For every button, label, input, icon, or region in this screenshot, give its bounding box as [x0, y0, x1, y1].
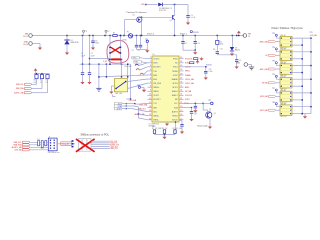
- testpoint TP5: [275, 62, 277, 64]
- wire: [141, 17, 143, 35]
- ground: [235, 65, 239, 69]
- svg-text:J5-1,2: J5-1,2: [23, 36, 28, 38]
- junction: [290, 51, 291, 52]
- wire: [146, 43, 148, 51]
- junction: [281, 86, 282, 87]
- junction: [310, 92, 311, 93]
- junction: [89, 35, 90, 36]
- wire: [36, 74, 38, 75]
- junction: [281, 113, 282, 114]
- junction: [310, 79, 311, 80]
- jumper block JP5: [280, 91, 292, 102]
- svg-text:24: 24: [180, 90, 182, 92]
- svg-text:1: 1: [150, 57, 151, 59]
- IC U1 right pin 19: [179, 111, 184, 113]
- junction: [302, 113, 303, 114]
- junction: [290, 72, 291, 73]
- ground: [193, 51, 197, 55]
- junction: [310, 51, 311, 52]
- svg-text:VOUT_0: VOUT_0: [147, 33, 154, 35]
- capacitor C9: [235, 60, 238, 62]
- wire: [109, 36, 111, 65]
- svg-text:PGD0: PGD0: [173, 58, 178, 60]
- capacitor C13: [216, 52, 219, 54]
- svg-text:C2: C2: [90, 53, 92, 55]
- testpoint TP4: [275, 48, 277, 50]
- wire: [92, 43, 94, 48]
- junction: [54, 142, 55, 143]
- junction: [302, 58, 303, 59]
- jumper block JP2: [280, 50, 292, 61]
- capacitor C7: [181, 42, 184, 44]
- svg-text:21: 21: [180, 102, 182, 104]
- IC U1 left pin 11: [148, 98, 153, 100]
- switch S1: [114, 79, 127, 92]
- junction: [290, 41, 291, 42]
- svg-text:17: 17: [180, 118, 182, 120]
- wire jumper block 2 right: [292, 51, 311, 53]
- junction: [140, 35, 141, 36]
- svg-text:GPIO1: GPIO1: [172, 87, 178, 89]
- junction: [238, 35, 239, 36]
- IC U1 left pin 16: [148, 119, 153, 121]
- wire: [30, 144, 48, 146]
- wire: [127, 64, 129, 77]
- ground IC: [165, 122, 169, 126]
- svg-text:8: 8: [150, 86, 151, 88]
- crossed-out connector ghost: [79, 139, 92, 152]
- junction: [236, 35, 237, 36]
- junction: [50, 140, 51, 141]
- ground: [186, 21, 190, 25]
- svg-text:BG1: BG1: [153, 112, 157, 114]
- wire: [141, 86, 144, 88]
- IC U1 left pin 1: [148, 58, 153, 60]
- resistor R2: [216, 40, 219, 44]
- net label VSNS-: [134, 61, 141, 64]
- svg-text:23: 23: [180, 94, 182, 96]
- svg-text:SCL: SCL: [118, 103, 121, 105]
- capacitor C4: [186, 16, 189, 18]
- testpoint TP1: [146, 40, 148, 42]
- wire: [39, 44, 41, 48]
- junction: [106, 64, 107, 65]
- wire: [57, 143, 75, 145]
- wire: [105, 64, 107, 77]
- svg-text:GND: GND: [24, 42, 29, 44]
- junction: [302, 44, 303, 45]
- wire: [140, 67, 148, 70]
- ground: [193, 109, 197, 113]
- wire: [126, 108, 132, 110]
- ground: [142, 88, 146, 92]
- wire: [110, 86, 112, 90]
- svg-text:TSNS0: TSNS0: [172, 71, 178, 73]
- wire: [191, 108, 193, 112]
- junction: [126, 103, 127, 104]
- wire: [137, 49, 148, 51]
- wire: [126, 105, 134, 107]
- junction: [302, 86, 303, 87]
- svg-text:C9: C9: [239, 60, 241, 62]
- junction: [120, 35, 121, 36]
- jumper block JP3: [280, 64, 292, 75]
- svg-text:D2 MBR0540 CV: D2 MBR0540 CV: [159, 8, 173, 10]
- wire: [202, 103, 204, 110]
- wire: [128, 79, 148, 82]
- wire: [112, 95, 114, 97]
- wire jumper block 5 right: [292, 92, 311, 94]
- svg-text:U1: U1: [153, 54, 155, 56]
- wire: [203, 102, 210, 104]
- wire: [191, 113, 193, 119]
- junction: [125, 81, 126, 82]
- wire: [205, 67, 207, 72]
- ground: [87, 81, 91, 85]
- wire: [91, 144, 110, 146]
- ground: [162, 135, 166, 139]
- junction: [127, 76, 128, 77]
- wire: [89, 64, 91, 73]
- wire node link right: [110, 63, 131, 65]
- power: [196, 60, 200, 64]
- svg-text:12: 12: [149, 102, 151, 104]
- wire: [251, 65, 253, 68]
- wire: [124, 20, 126, 36]
- svg-text:C1: C1: [81, 53, 83, 55]
- wire: [182, 43, 184, 50]
- svg-text:SYNC: SYNC: [173, 75, 179, 77]
- IC U1 left pin 12: [148, 103, 153, 105]
- diode D1 TVS: [64, 40, 69, 44]
- capacitor C2: [88, 73, 91, 75]
- junction: [195, 50, 196, 51]
- svg-text:PGOOD1: PGOOD1: [185, 95, 192, 97]
- IC U1 right pin 22: [179, 98, 184, 100]
- junction: [82, 63, 83, 64]
- junction: [89, 58, 90, 59]
- ground: [204, 76, 208, 80]
- wire: [162, 4, 188, 6]
- svg-text:100k: 100k: [220, 44, 224, 46]
- diode D2: [158, 3, 162, 7]
- junction: [54, 140, 55, 141]
- junction: [290, 92, 291, 93]
- fuse glyph row: [135, 64, 139, 65]
- wire: [142, 16, 173, 18]
- capacitor C1: [81, 73, 84, 75]
- junction: [120, 52, 121, 53]
- svg-text:22: 22: [180, 98, 182, 100]
- wire: [135, 103, 137, 106]
- svg-text:Temp Diode: Temp Diode: [197, 125, 209, 127]
- net label SCL: [114, 102, 122, 105]
- wire: [139, 58, 147, 59]
- svg-text:10: 10: [149, 94, 151, 96]
- wire: [143, 87, 145, 90]
- junction: [281, 65, 282, 66]
- svg-text:13: 13: [149, 106, 151, 108]
- svg-text:31: 31: [180, 61, 182, 63]
- IC U1 left pin 9: [148, 90, 153, 92]
- wire: [120, 36, 122, 65]
- junction: [54, 148, 55, 149]
- svg-text:SW1: SW1: [153, 107, 157, 109]
- svg-text:32: 32: [180, 57, 182, 59]
- junction: [281, 106, 282, 107]
- svg-text:VIN_SNS: VIN_SNS: [153, 83, 161, 85]
- junction: [302, 72, 303, 73]
- junction: [120, 47, 121, 48]
- IC U1: [152, 56, 179, 122]
- svg-text:26: 26: [180, 82, 182, 84]
- svg-text:SW0: SW0: [153, 75, 157, 77]
- svg-text:SMB_SCL: SMB_SCL: [14, 142, 22, 144]
- svg-text:FREQ: FREQ: [185, 71, 190, 73]
- junction: [310, 106, 311, 107]
- wire: [231, 36, 233, 48]
- junction: [50, 148, 51, 149]
- svg-text:ISNS0-: ISNS0-: [153, 91, 159, 93]
- svg-text:PGD1: PGD1: [173, 67, 178, 69]
- wire: [209, 118, 211, 126]
- big red X: [76, 139, 95, 152]
- wire: [36, 79, 38, 85]
- svg-text:16: 16: [149, 118, 151, 120]
- svg-text:Temp_D1: Temp_D1: [62, 144, 69, 146]
- wire: [231, 51, 233, 54]
- IC U1 left pin 13: [148, 107, 153, 109]
- IC U1 left pin 6: [148, 78, 153, 80]
- svg-text:U2: U2: [132, 15, 134, 17]
- wire: [137, 102, 148, 105]
- wire: [32, 92, 48, 94]
- svg-text:SOD-123: SOD-123: [159, 10, 166, 12]
- wire: [216, 53, 218, 54]
- junction: [138, 113, 139, 114]
- svg-text:J5-3,4: J5-3,4: [23, 44, 28, 46]
- svg-text:ISNS0+: ISNS0+: [153, 87, 159, 89]
- ground: [109, 90, 113, 94]
- junction: [164, 134, 165, 135]
- wire: [122, 108, 127, 110]
- wire: [89, 74, 91, 82]
- junction: [281, 79, 282, 80]
- IC U1 right pin 27: [179, 78, 184, 80]
- resistor pack: [38, 141, 47, 148]
- wire: [236, 55, 238, 60]
- wire VIN bus: [32, 35, 244, 37]
- junction: [126, 108, 127, 109]
- svg-text:27: 27: [180, 78, 182, 80]
- highlight blob outline: [107, 40, 129, 63]
- wire: [194, 108, 196, 110]
- svg-text:14: 14: [149, 110, 151, 112]
- svg-text:VOUT0: VOUT0: [153, 58, 159, 60]
- wire: [304, 114, 306, 117]
- IC U1 left pin 5: [148, 74, 153, 76]
- svg-text:5: 5: [150, 73, 151, 75]
- wire: [209, 108, 211, 112]
- svg-text:PGOOD0: PGOOD0: [185, 58, 192, 60]
- wire: [91, 148, 110, 150]
- resistor R4: [194, 58, 198, 60]
- junction: [281, 72, 282, 73]
- svg-text:TSNS1: TSNS1: [172, 116, 178, 118]
- junction: [104, 35, 105, 36]
- power flag: [237, 31, 241, 35]
- wire: [146, 4, 158, 6]
- junction: [290, 58, 291, 59]
- wire: [174, 133, 176, 134]
- IC U1 right pin 23: [179, 94, 184, 96]
- junction: [121, 63, 122, 64]
- wire: [32, 43, 40, 45]
- junction: [217, 35, 218, 36]
- wire: [41, 74, 43, 75]
- ground: [38, 46, 42, 50]
- junction: [205, 66, 206, 67]
- junction: [281, 38, 282, 39]
- svg-text:VDD25: VDD25: [172, 120, 178, 122]
- svg-text:D1: D1: [70, 40, 72, 42]
- wire: [140, 47, 142, 50]
- IC U1 left pin 7: [148, 82, 153, 84]
- junction: [302, 113, 303, 114]
- svg-text:C3: C3: [95, 40, 97, 42]
- wire: [91, 142, 110, 144]
- jumper block JP6: [280, 105, 292, 116]
- wire: [194, 103, 196, 106]
- junction: [290, 69, 291, 70]
- wire: [125, 19, 138, 21]
- wire: [128, 83, 148, 88]
- junction: [121, 76, 122, 77]
- capacitor C3: [91, 41, 94, 43]
- wire: [138, 118, 147, 120]
- svg-text:ISNS1+: ISNS1+: [153, 116, 159, 118]
- IC U1 right pin 18: [179, 115, 184, 117]
- wire: [130, 64, 132, 99]
- wire: [181, 121, 183, 124]
- wire: [140, 36, 142, 46]
- IC U1 right pin 20: [179, 107, 184, 109]
- junction: [41, 73, 42, 74]
- wire: [182, 36, 184, 42]
- wire: [92, 36, 94, 42]
- junction: [195, 103, 196, 104]
- junction: [290, 82, 291, 83]
- testpoint TP6: [275, 75, 277, 77]
- junction: [145, 4, 146, 5]
- testpoint bus: [83, 30, 85, 32]
- junction: [109, 47, 110, 48]
- svg-text:VDD33: VDD33: [193, 32, 199, 34]
- testpoint TP3: [275, 34, 277, 36]
- ground: [199, 57, 203, 61]
- junction: [290, 79, 291, 80]
- junction: [50, 142, 51, 143]
- junction: [191, 107, 192, 108]
- wire: [66, 44, 68, 53]
- junction: [281, 51, 282, 52]
- svg-text:GPIO0: GPIO0: [172, 83, 178, 85]
- svg-text:6: 6: [150, 78, 151, 80]
- junction: [98, 64, 99, 65]
- wire node link: [80, 63, 111, 65]
- svg-text:C8: C8: [197, 43, 199, 45]
- wire: [122, 103, 127, 105]
- junction: [115, 88, 116, 89]
- svg-text:2: 2: [150, 61, 151, 63]
- junction: [281, 58, 282, 59]
- wire: [126, 98, 130, 100]
- wire: [164, 133, 166, 134]
- IC U1 right pin 21: [179, 103, 184, 105]
- IC U1 right pin 17: [179, 119, 184, 121]
- svg-text:VS0-: VS0-: [134, 62, 138, 64]
- IC U1 left pin 2: [148, 62, 153, 64]
- ground: [145, 49, 149, 53]
- junction: [182, 35, 183, 36]
- testpoint TP2: [211, 102, 214, 105]
- resistor R sense in bus: [113, 35, 117, 37]
- resistor R5: [190, 62, 194, 64]
- svg-text:BG0: BG0: [153, 79, 157, 81]
- junction: [126, 105, 127, 106]
- svg-text:TP1: TP1: [145, 39, 148, 41]
- wire rail: [34, 73, 50, 75]
- svg-text:RUN0: RUN0: [185, 63, 190, 65]
- junction: [290, 106, 291, 107]
- wire: [111, 85, 114, 87]
- wire: [184, 107, 192, 109]
- junction: [109, 63, 110, 64]
- capacitor C8: [194, 42, 197, 44]
- transistor Q1: [173, 15, 175, 20]
- testpoint TP8: [138, 86, 140, 88]
- capacitor C10: [180, 125, 183, 127]
- jumper block JP4: [280, 78, 292, 89]
- IC U1 right pin 25: [179, 86, 184, 88]
- wire jumper block 3 right: [292, 65, 311, 67]
- svg-text:ISNS1-: ISNS1-: [153, 120, 159, 122]
- wire: [138, 114, 147, 116]
- wire: [136, 47, 138, 50]
- junction: [50, 145, 51, 146]
- IC U1 left pin 10: [148, 94, 153, 96]
- testpoint bus: [105, 30, 107, 32]
- svg-text:30: 30: [180, 65, 182, 67]
- junction: [281, 92, 282, 93]
- connector GND loop: [244, 63, 248, 67]
- capacitor C6: [139, 45, 142, 47]
- wire: [236, 61, 238, 66]
- connector TP VIN: [243, 34, 247, 38]
- junction: [290, 86, 291, 87]
- svg-text:20: 20: [180, 106, 182, 108]
- ground: [180, 130, 184, 134]
- capacitor C12: [204, 71, 207, 73]
- wire: [91, 146, 110, 148]
- connector J2: [48, 138, 57, 151]
- capacitor C5: [135, 45, 138, 47]
- fuse F1 on bus: [128, 34, 132, 38]
- svg-text:9: 9: [150, 90, 151, 92]
- svg-text:Pullup / Pulldown / High Z pin: Pullup / Pulldown / High Z pins: [271, 28, 303, 30]
- svg-text:LTC3880EUJ: LTC3880EUJ: [149, 123, 160, 125]
- svg-text:0.1 uF: 0.1 uF: [191, 17, 196, 19]
